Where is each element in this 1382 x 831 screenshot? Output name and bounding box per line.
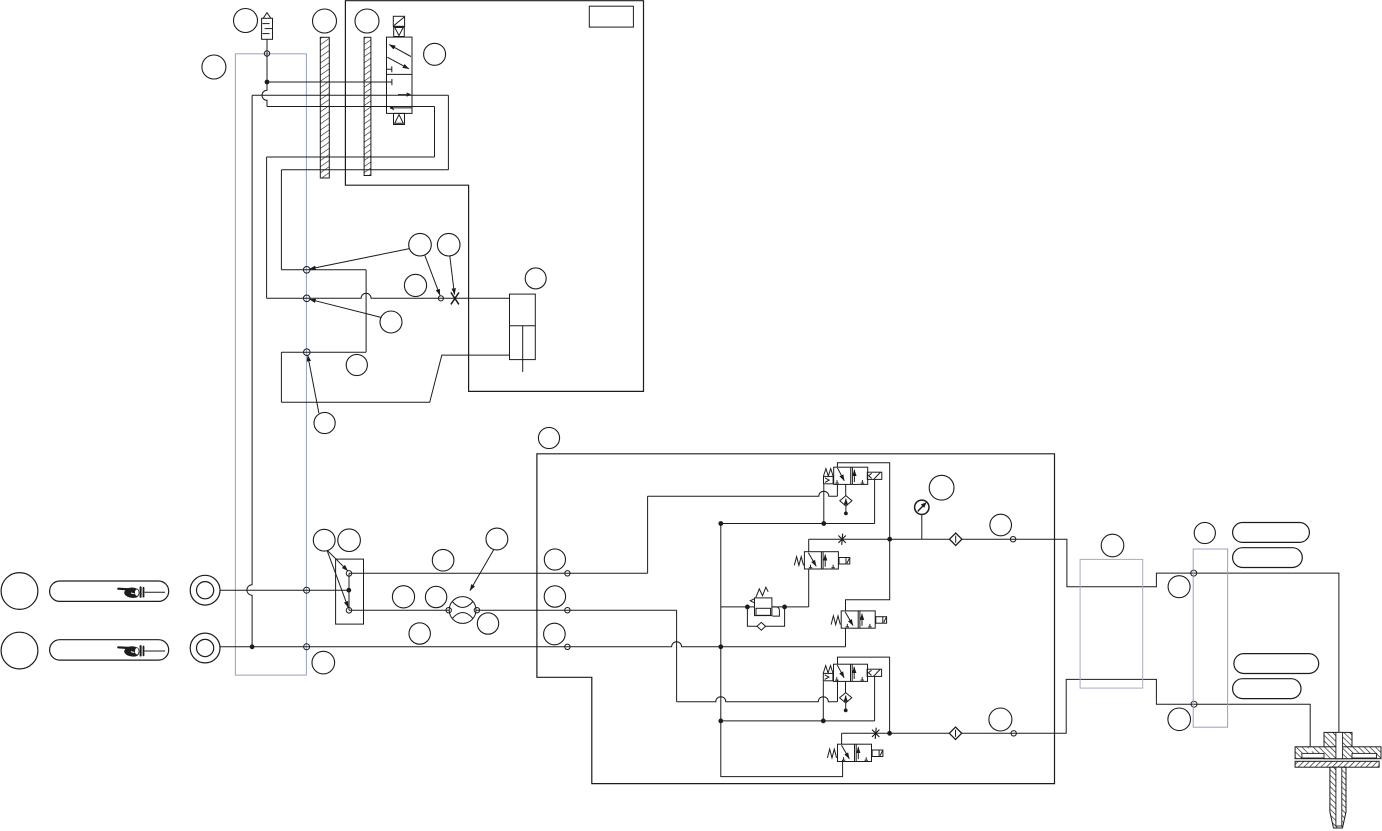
bulkhead bar 1 (hatched) [320,37,329,178]
nozzle stem (hatched) [1330,767,1346,828]
bulkhead bar 2 (hatched) [364,37,371,175]
line from hand 1 [145,591,166,593]
balloon 24 [544,586,565,607]
node A y269.8 [303,267,310,274]
balloon 4 [355,9,379,33]
wire y298.3 with hop [267,293,510,298]
balloon 32 [1168,708,1191,731]
port node lower out [1011,731,1016,736]
leader balloon6 to port node [425,256,440,296]
wire y720.9 valve4 feeds [721,720,875,722]
nozzle upper flange (hatched) [1295,747,1381,759]
wire port riser valve4 [837,680,839,701]
wire riser x647.6 [647,496,649,573]
junction pilot lower [888,731,892,735]
balloon 19 [392,586,414,608]
balloon 26 [929,475,954,500]
valve M5 (3/2 pilot spring) [827,744,883,761]
left operator circle 2 [1,632,38,669]
nozzle stem channel [1336,767,1342,826]
junction regulator in [746,605,750,609]
riser valve4 solenoid port [874,676,876,721]
pilot triangle box of valve V1 [394,26,405,36]
quick coupling 1 outer [190,575,220,605]
balloon 10 [346,354,367,375]
flow meter ball [449,597,476,624]
lever valve node bottom [346,608,352,614]
wire y169.8 [281,169,448,171]
node on filter line [264,51,269,56]
balloon 14 [313,529,335,551]
balloon 7 [437,233,460,256]
junction pilot upper [888,537,892,541]
balloon 27 [990,514,1012,536]
wire y701.7 with two hops [677,697,838,702]
junction filter line [265,80,269,84]
node supply 1 [304,644,310,650]
valve M2 (3/2 pilot spring) [794,552,850,569]
riser valve1 left port [823,484,825,523]
node supply 2 [565,644,570,649]
balloon 31 [1168,576,1190,598]
leader balloon14 to node bottom [327,551,348,608]
junction supply mid [719,719,723,723]
wire y157 [267,156,435,158]
pill button 1 [50,581,169,601]
balloon 23 [544,549,565,570]
wire y523.5 valve1 feeds [721,523,875,525]
riser valve1 solenoid port [874,479,876,523]
wire drop x676.6 [676,610,678,702]
junction supply top [719,522,723,526]
junction valve4 left port [821,719,825,723]
muffler pill 4 [1233,679,1301,699]
junction supply bottom [250,645,254,649]
balloon 20 [425,586,446,607]
node circuit A [565,571,570,576]
flow meter node right [474,608,479,613]
port node upper out [1010,537,1015,542]
restrictor X symbol [451,292,459,304]
flow meter node left [446,608,451,613]
filter F1 [262,13,273,40]
node B y352.2 [304,349,311,356]
node on selection rect upper [1191,570,1197,576]
wire circuit B y610.1 [349,609,677,611]
manicule hand 2 [117,645,144,657]
balloon 15 [338,529,361,552]
wire riser x434.5 [434,107,436,158]
balloon 12 [538,427,559,448]
solenoid of valve V1 top [393,16,404,26]
wire y402.3 with diagonal to cylinder line [281,355,509,402]
wire long drop x252 with hop [247,95,252,647]
nozzle center block (hatched) [1324,732,1352,758]
balloon 25 [544,623,566,645]
leader balloon14 to node top [328,551,348,571]
junction lever valve [347,588,351,592]
riser valve4 left port [822,681,824,721]
riser valve1 port A [836,484,838,496]
riser valve5 top port [841,733,843,744]
exhaust box of valve V1 [394,113,405,124]
pill button 2 [50,640,169,660]
node coupling wire 1 [304,587,310,593]
wire pilot port line y82 [267,81,392,83]
wire drop x366.1 [365,270,367,352]
balloon 16 [312,651,335,674]
lever valve node top [346,571,352,577]
valve V1 body (5/2 vertical) [387,37,413,113]
supply riser x720.8 to valve5 [721,524,843,777]
quick coupling 1 inner [197,582,214,599]
balloon 9 [380,311,402,333]
nozzle channel upper [1336,732,1343,758]
blocked port T-bar [391,79,393,85]
wire y269.8 [281,269,366,271]
check valve diamond upper [950,533,962,545]
riser valve2 top port [808,539,810,552]
node circuit B [565,608,570,613]
selection rect (blue) left [235,54,306,675]
junction supply x720.8 [719,645,723,649]
wire filter drop [266,39,268,82]
valve M1 pilot loop [837,463,889,540]
quick coupling 2 outer [190,633,220,663]
restrictor X lower [872,728,879,739]
muffler pill 1 [1233,523,1310,543]
junction valve1 left port [822,522,826,526]
lever valve internal line [348,573,350,610]
main manifold box [537,454,1055,784]
leader balloon6 to node A [310,249,410,269]
balloon 17 [432,549,454,571]
valve M1 (3/2 solenoid spring) [824,467,882,515]
balloon 29 [1101,534,1124,557]
nozzle flange slot right [1352,753,1377,758]
wire drop x266.6 [266,157,268,298]
balloon 6 [409,233,432,256]
valve M3 (3/2 pilot spring) [831,611,887,628]
quick coupling 2 inner [197,639,214,656]
check valve diamond lower [949,727,961,739]
leader balloon11 to node B [308,355,319,413]
cylinder C1 [510,294,536,372]
wire y106.5 [267,106,435,108]
nozzle flange small notch [1307,748,1313,751]
wire vertical with hop to y106 [262,82,267,107]
pressure gauge G1 [915,500,929,539]
balloon 11 [314,412,335,433]
balloon 21 [409,623,430,644]
wire regulator line y606.9 [721,606,809,608]
balloon 3 [313,9,337,33]
wire coupling1 to lever valve [220,589,349,591]
node C y298.3 [303,295,310,302]
junction regulator out [783,605,787,609]
balloon 22 [477,613,498,634]
wire y496.2 with hop [648,491,838,496]
leader balloon18 to flow meter [470,550,494,591]
leader balloon7 to X [450,256,455,295]
wire y95.3 [252,94,448,96]
nozzle lower bar (hatched) [1295,761,1379,767]
wire riser x448.4 [447,95,449,170]
left operator circle 1 [1,573,38,610]
manicule hand 1 [117,586,144,598]
leader balloon9 to node C [310,299,382,317]
balloon 18 [486,528,508,550]
wire drop x281.4 lower [280,352,282,402]
pressure regulator R1 [747,587,784,630]
balloon 5 [424,43,446,65]
wire drop x281.4 [280,170,282,270]
valve M3 bottom port [845,628,847,647]
balloon 28 [989,708,1012,731]
restrictor X upper [838,534,845,545]
riser valve2 bottom port [808,569,810,607]
main control line lower [842,679,1311,746]
title block rectangle [589,6,633,27]
wire circuit A y573.3 [349,572,648,574]
balloon 1 [234,9,258,33]
balloon 8 [404,274,426,296]
balloon 2 [202,55,226,79]
selection rect (gray) mid right [1080,559,1143,688]
line from hand 2 [145,650,166,652]
main control line upper [809,539,1339,732]
valve M4 pilot loop [838,657,890,733]
frame box upper system boundary [345,1,643,392]
balloon 30 [1194,522,1215,543]
wire supply y646.8 [220,642,846,647]
port node near X [438,296,443,301]
selection rect (blue) right [1193,549,1227,727]
valve M3 feed line [846,539,890,611]
lever valve block [336,559,364,624]
node on selection rect lower [1191,701,1197,707]
wire y352.2 [281,351,366,353]
balloon 13 [525,268,546,289]
muffler pill 3 [1234,654,1319,674]
muffler pill 2 [1233,548,1303,568]
valve M4 (3/2 solenoid spring) [823,664,881,712]
nozzle flange slot left [1302,753,1324,758]
